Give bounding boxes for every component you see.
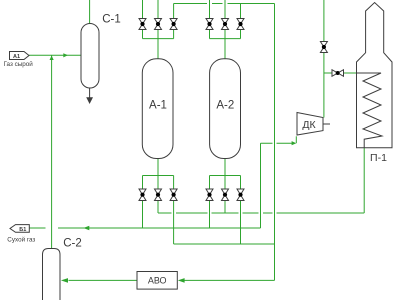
wire cooler outlet to C-2: [69, 279, 138, 281]
node C-1 drain arrow: [89, 88, 91, 98]
svg-text:Б1: Б1: [19, 227, 26, 233]
valve V8: [155, 189, 162, 201]
valve V12: [237, 189, 244, 201]
svg-text:С-1: С-1: [102, 14, 121, 26]
valve V13 vent on discharge riser: [320, 42, 327, 53]
node stream tag A1: [10, 52, 30, 60]
svg-text:Газ сырой: Газ сырой: [4, 60, 34, 68]
node stream tag B1: [10, 225, 29, 233]
valve V14 heater inlet: [332, 70, 344, 77]
valve V5: [222, 19, 229, 30]
wire valve line 5 upper: [224, 0, 226, 39]
air cooler ABO: [137, 272, 177, 290]
wire recycle riser from C-2 top: [51, 55, 53, 248]
wire heater inlet line: [324, 72, 357, 74]
adsorber A-1: [142, 59, 173, 159]
svg-text:А1: А1: [13, 54, 20, 60]
valve V1: [139, 19, 146, 30]
wire compressor suction riser: [260, 143, 262, 228]
wire arrow into C-2: [61, 278, 68, 283]
svg-text:А-2: А-2: [216, 100, 234, 112]
valve V3: [170, 19, 177, 30]
separator C-1: [81, 24, 99, 89]
svg-text:С-2: С-2: [63, 238, 82, 250]
wire arrow into ABO: [178, 278, 185, 283]
wire suction rise into compressor: [295, 136, 297, 143]
wire heater feed header: [174, 243, 275, 245]
valve V9: [170, 189, 177, 201]
furnace P-1: [357, 3, 393, 148]
svg-text:ДК: ДК: [302, 119, 316, 131]
wire A-2 bottom manifold: [210, 175, 241, 177]
wire A-1 bottom nozzle: [157, 159, 159, 176]
node compressor shaft stub: [323, 123, 330, 125]
wire bottom valve line 1 to product header: [142, 201, 144, 229]
wire A-2 bottom nozzle: [224, 159, 226, 176]
wire regen return to cooler: [185, 279, 275, 281]
wire valve line 3 upper: [173, 4, 175, 39]
wire C-1 overhead line: [89, 0, 91, 24]
valve V4: [206, 19, 213, 30]
wire bottom valve line 3 to heater header: [173, 201, 175, 245]
wire bottom valve line 4 to product header: [209, 201, 211, 229]
valve V7: [139, 189, 146, 201]
wire A-2 top manifold: [210, 38, 241, 40]
wire A-2 bottom valve drops: [210, 176, 241, 190]
wire bottom valve line 5 to regen header: [224, 201, 226, 214]
wire bottom valve line 2 to regen header: [157, 201, 159, 214]
valve V10: [206, 189, 213, 201]
wire bottom valve line 6 to heater header: [240, 201, 242, 245]
svg-text:Сухой газ: Сухой газ: [7, 236, 35, 244]
wire compressor suction horizontal with gap: [261, 142, 293, 144]
wire suction arrow right: [292, 141, 297, 145]
svg-text:А-1: А-1: [149, 100, 167, 112]
svg-text:АВО: АВО: [148, 276, 167, 286]
wire regeneration header with crossing gaps: [158, 212, 364, 214]
wire A-1 top nozzle: [157, 39, 159, 59]
wire valve line 4 upper: [209, 0, 211, 39]
wire top header with crossing gaps: [174, 3, 275, 5]
valve V6: [237, 19, 244, 30]
wire valve line 2 upper: [157, 0, 159, 39]
wire long right vertical riser: [274, 4, 276, 281]
node junction arrow up at recycle tie-in: [50, 56, 54, 60]
wire A-1 bottom valve drops: [143, 176, 174, 190]
wire valve line 1 upper: [142, 0, 144, 39]
compressor DK: [297, 113, 323, 136]
separator C-2: [43, 249, 61, 300]
wire compressor discharge riser: [323, 0, 325, 118]
svg-text:П-1: П-1: [370, 152, 387, 164]
wire A-1 bottom manifold: [143, 175, 174, 177]
wire dry gas product header: [29, 227, 260, 229]
wire A-1 top manifold: [143, 38, 174, 40]
wire heater outlet line: [363, 148, 365, 213]
valve V2: [155, 19, 162, 30]
wire flow arrow right on feed line: [63, 53, 68, 57]
wire feed line A1 to C-1: [29, 54, 81, 56]
valve V11: [222, 189, 229, 201]
wire flow arrow left on product header: [83, 226, 89, 231]
adsorber A-2: [210, 59, 241, 159]
wire A-2 top nozzle: [224, 39, 226, 59]
node furnace coil: [357, 73, 383, 148]
wire valve line 6 upper: [240, 4, 242, 39]
